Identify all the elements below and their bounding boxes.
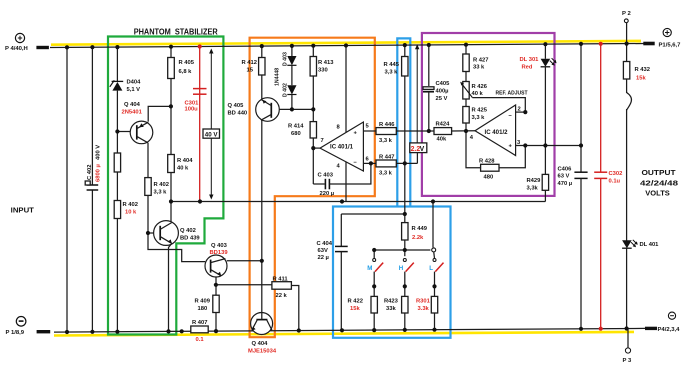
svg-text:R 428: R 428 [479, 159, 495, 165]
svg-text:H: H [399, 265, 404, 272]
svg-text:BD 439: BD 439 [180, 236, 200, 242]
svg-text:L: L [429, 265, 433, 272]
svg-text:220 µ: 220 µ [320, 191, 335, 197]
svg-text:1N4448: 1N4448 [275, 68, 281, 86]
svg-text:IC 401/2: IC 401/2 [485, 129, 509, 136]
svg-text:R 425: R 425 [472, 108, 488, 114]
svg-text:R429: R429 [527, 178, 542, 184]
svg-text:10 k: 10 k [125, 210, 137, 216]
svg-text:400µ: 400µ [436, 89, 449, 95]
svg-text:REF. ADJUST: REF. ADJUST [496, 90, 528, 96]
svg-text:R 402: R 402 [123, 202, 138, 208]
svg-text:MJE15034: MJE15034 [248, 348, 277, 354]
svg-text:Q 404: Q 404 [252, 341, 269, 347]
svg-text:R 405: R 405 [179, 60, 195, 66]
svg-text:OUTPUT: OUTPUT [642, 168, 676, 177]
svg-text:DL 301: DL 301 [520, 57, 540, 63]
svg-text:INPUT: INPUT [11, 205, 35, 214]
svg-text:6,8 k: 6,8 k [179, 69, 193, 75]
svg-text:3,3 k: 3,3 k [472, 115, 486, 121]
svg-text:PHANTOM STABILIZER: PHANTOM STABILIZER [134, 28, 218, 37]
svg-text:R301: R301 [416, 299, 431, 305]
svg-text:R 426: R 426 [472, 84, 488, 90]
svg-text:C405: C405 [436, 81, 451, 87]
svg-text:0.1: 0.1 [196, 337, 205, 343]
svg-text:0.1u: 0.1u [609, 179, 621, 185]
svg-text:63V: 63V [318, 248, 328, 254]
svg-text:33k: 33k [386, 306, 396, 312]
svg-text:680: 680 [291, 131, 301, 137]
svg-text:R 409: R 409 [195, 299, 211, 305]
svg-text:400 V: 400 V [96, 145, 102, 160]
svg-text:R 414: R 414 [288, 124, 304, 130]
svg-text:P 2: P 2 [622, 11, 631, 17]
svg-text:D 402: D 402 [283, 83, 289, 97]
svg-text:6800 µ: 6800 µ [96, 164, 102, 182]
svg-text:C302: C302 [609, 171, 623, 177]
svg-text:480: 480 [484, 175, 494, 181]
svg-text:DL 401: DL 401 [640, 242, 660, 248]
svg-text:R 413: R 413 [318, 60, 334, 66]
svg-text:C406: C406 [558, 167, 573, 173]
svg-text:R423: R423 [384, 299, 399, 305]
svg-text:25 V: 25 V [436, 96, 448, 102]
svg-text:IC 401/1: IC 401/1 [330, 144, 354, 151]
svg-text:VOLTS: VOLTS [645, 189, 670, 198]
svg-text:R 449: R 449 [412, 226, 428, 232]
svg-text:Q 403: Q 403 [211, 243, 228, 249]
svg-text:15k: 15k [350, 306, 360, 312]
svg-text:3.3k: 3.3k [418, 306, 430, 312]
svg-text:R 427: R 427 [473, 58, 488, 64]
svg-text:V: V [420, 146, 425, 153]
svg-text:D 403: D 403 [283, 52, 289, 66]
svg-text:P4/2,3,4: P4/2,3,4 [658, 327, 681, 333]
svg-text:BD 440: BD 440 [228, 111, 248, 117]
svg-text:R 407: R 407 [192, 320, 207, 326]
svg-text:P1/5,6,7: P1/5,6,7 [659, 42, 682, 48]
svg-text:R424: R424 [436, 122, 451, 128]
svg-text:3,3k: 3,3k [527, 186, 539, 192]
svg-text:P 3: P 3 [623, 358, 632, 364]
svg-text:7: 7 [321, 138, 324, 144]
svg-text:3,3 k: 3,3 k [385, 70, 399, 76]
svg-text:42/24/48: 42/24/48 [640, 178, 678, 187]
svg-text:Red: Red [522, 65, 533, 71]
svg-text:R 402: R 402 [154, 182, 169, 188]
svg-text:R 445: R 445 [384, 62, 400, 68]
svg-text:40k: 40k [437, 137, 447, 143]
svg-text:2: 2 [518, 107, 521, 113]
svg-text:15k: 15k [636, 76, 646, 82]
svg-text:33 k: 33 k [473, 65, 485, 71]
svg-text:2N5401: 2N5401 [122, 110, 143, 116]
svg-text:Q 405: Q 405 [228, 103, 245, 109]
svg-text:P 1/8,9: P 1/8,9 [6, 330, 25, 336]
svg-text:D404: D404 [127, 80, 142, 86]
svg-text:R 446: R 446 [379, 122, 395, 128]
svg-text:40 k: 40 k [177, 166, 189, 172]
svg-text:C 403: C 403 [318, 172, 334, 178]
svg-text:5,1 V: 5,1 V [127, 87, 141, 93]
svg-text:3,3 k: 3,3 k [154, 190, 168, 196]
svg-text:40 k: 40 k [472, 91, 484, 97]
svg-text:R 447: R 447 [379, 154, 394, 160]
svg-text:Q 404: Q 404 [124, 102, 141, 108]
svg-text:P 4/40,H: P 4/40,H [5, 46, 28, 52]
svg-text:180: 180 [198, 306, 208, 312]
svg-text:BD139: BD139 [210, 250, 229, 256]
svg-text:63 V: 63 V [558, 174, 570, 180]
svg-text:R 404: R 404 [177, 158, 193, 164]
svg-text:R 411: R 411 [273, 277, 289, 283]
svg-text:R 422: R 422 [348, 299, 363, 305]
svg-text:22 µ: 22 µ [318, 255, 329, 261]
svg-text:330: 330 [318, 68, 328, 74]
svg-text:470 µ: 470 µ [558, 181, 573, 187]
svg-text:2.2k: 2.2k [412, 235, 424, 241]
svg-text:22 k: 22 k [276, 293, 288, 299]
svg-text:C 404: C 404 [317, 241, 333, 247]
svg-text:R 432: R 432 [635, 67, 650, 73]
svg-text:40 V: 40 V [205, 131, 219, 138]
svg-text:Q 402: Q 402 [180, 228, 196, 234]
svg-text:R 412: R 412 [242, 60, 257, 66]
svg-text:15: 15 [247, 68, 254, 74]
svg-text:3,3 k: 3,3 k [379, 171, 393, 177]
svg-text:C 402: C 402 [87, 165, 93, 180]
svg-text:3,3 k: 3,3 k [379, 138, 393, 144]
svg-text:100u: 100u [185, 107, 199, 113]
svg-text:M: M [367, 265, 372, 272]
